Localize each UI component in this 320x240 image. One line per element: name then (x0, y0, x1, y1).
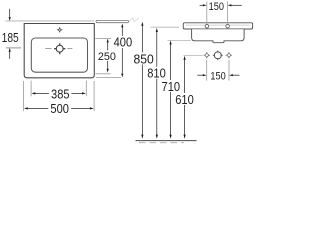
svg-text:385: 385 (51, 87, 70, 102)
svg-text:500: 500 (50, 101, 69, 116)
svg-text:150: 150 (209, 1, 225, 13)
svg-text:185: 185 (2, 32, 19, 45)
svg-text:610: 610 (175, 92, 194, 107)
svg-text:810: 810 (147, 66, 166, 81)
svg-text:850: 850 (133, 52, 153, 66)
svg-text:250: 250 (98, 51, 116, 63)
svg-text:400: 400 (114, 35, 133, 50)
svg-text:150: 150 (210, 71, 226, 83)
